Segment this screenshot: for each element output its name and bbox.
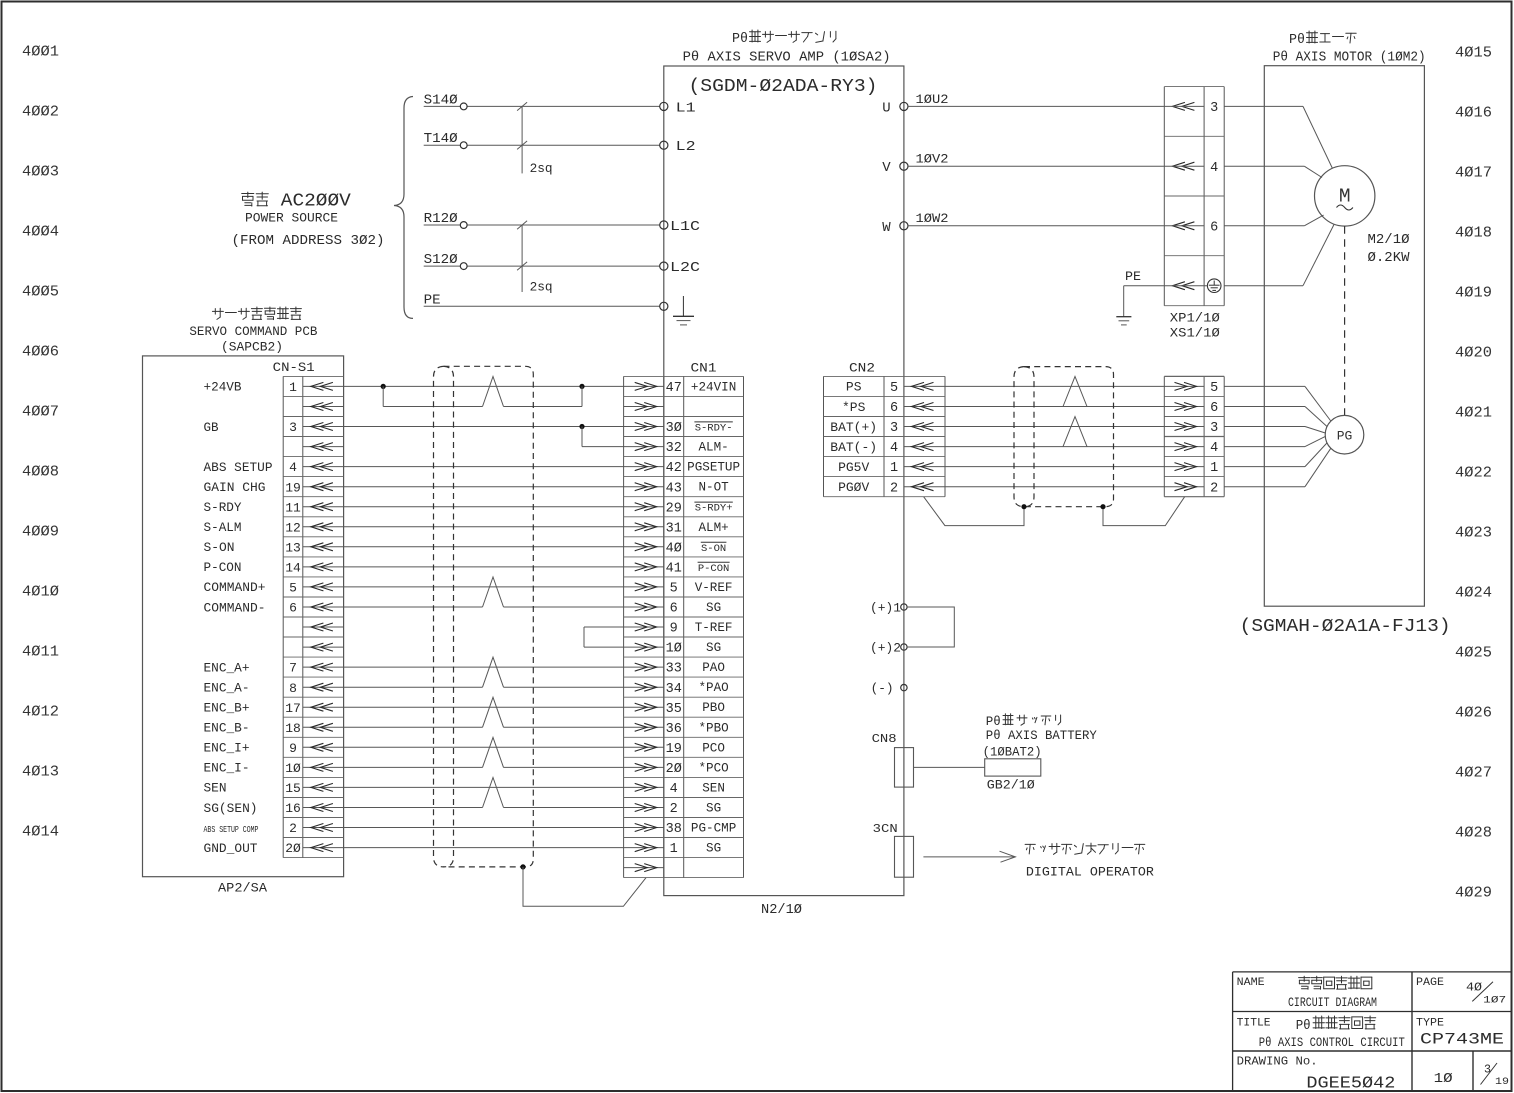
- svg-text:L1: L1: [676, 100, 696, 116]
- svg-text:L2C: L2C: [670, 260, 700, 276]
- svg-text:(FROM ADDRESS 3Ø2): (FROM ADDRESS 3Ø2): [232, 234, 385, 249]
- svg-text:PAGE: PAGE: [1416, 977, 1444, 989]
- terminal (+)1: [901, 604, 907, 610]
- terminal (+)2: [901, 644, 907, 650]
- encoder leads fan-in: [1224, 385, 1305, 387]
- wire row 6: [344, 506, 624, 508]
- svg-text:PGSETUP: PGSETUP: [687, 461, 740, 475]
- svg-text:3: 3: [1210, 421, 1218, 436]
- terminal L1: [660, 102, 668, 110]
- svg-text:PE: PE: [424, 293, 441, 308]
- svg-text:CN2: CN2: [849, 361, 875, 376]
- svg-text:PG: PG: [1337, 428, 1353, 443]
- wire pair rows 20-21: [344, 786, 624, 788]
- svg-text:CN-S1: CN-S1: [273, 360, 315, 375]
- svg-text:4ØØ8: 4ØØ8: [22, 464, 59, 480]
- svg-text:1: 1: [1210, 461, 1218, 476]
- connector CN-S1 grid: [282, 376, 284, 857]
- svg-text:DRAWING No.: DRAWING No.: [1237, 1055, 1318, 1069]
- svg-text:V-REF: V-REF: [695, 581, 733, 595]
- svg-text:(SAPCB2): (SAPCB2): [221, 340, 283, 355]
- svg-text:4Ø19: 4Ø19: [1455, 285, 1492, 301]
- svg-text:3: 3: [289, 420, 297, 435]
- svg-text:4ØØ2: 4ØØ2: [22, 104, 59, 120]
- svg-text:Pθ: Pθ: [732, 31, 748, 47]
- svg-text:AP2/SA: AP2/SA: [218, 881, 267, 896]
- shield drain to CN1 shell: [520, 864, 525, 869]
- svg-text:S-ON: S-ON: [204, 540, 235, 555]
- svg-text:5: 5: [890, 381, 898, 396]
- svg-text:PS: PS: [846, 380, 862, 395]
- svg-text:4ØØ6: 4ØØ6: [22, 344, 59, 360]
- connector CN8: [895, 748, 914, 788]
- label: power source AC200V: [242, 192, 269, 206]
- svg-text:5: 5: [670, 582, 678, 597]
- wire GB to S-RDY-/ALM-: [344, 426, 624, 428]
- CN1 row 6: S-RDY+ pin 29: [624, 506, 664, 508]
- svg-text:PBO: PBO: [702, 701, 725, 715]
- svg-text:POWER SOURCE: POWER SOURCE: [245, 212, 338, 226]
- svg-text:4Ø20: 4Ø20: [1455, 345, 1492, 361]
- svg-text:2Ø: 2Ø: [285, 841, 301, 856]
- terminal V + wire 10V2: [900, 162, 908, 170]
- svg-text:M2/1Ø: M2/1Ø: [1368, 233, 1410, 248]
- svg-text:PE: PE: [1125, 270, 1141, 284]
- wire +24VB pair (rows 0-1): [344, 385, 624, 387]
- svg-text:47: 47: [666, 381, 682, 396]
- svg-text:4Ø12: 4Ø12: [22, 704, 59, 720]
- svg-text:NAME: NAME: [1237, 977, 1265, 989]
- svg-text:19: 19: [1495, 1077, 1509, 1088]
- svg-text:36: 36: [666, 722, 682, 737]
- CN1 row 20: SEN pin 4: [624, 786, 664, 788]
- wire pair rows 14-15: [344, 666, 624, 668]
- svg-text:4Ø24: 4Ø24: [1455, 585, 1492, 601]
- svg-text:1: 1: [289, 380, 297, 395]
- svg-text:4: 4: [1210, 161, 1218, 176]
- CN1 row 11: SG pin 6: [624, 606, 664, 608]
- svg-text:*PBO: *PBO: [698, 721, 728, 735]
- motor-encoder dashed shaft link: [1344, 226, 1346, 415]
- svg-text:4Ø13: 4Ø13: [22, 764, 59, 780]
- motor box 10M2: [1264, 66, 1424, 607]
- svg-text:4: 4: [1210, 441, 1218, 456]
- svg-text:4Ø1Ø: 4Ø1Ø: [22, 584, 59, 600]
- svg-text:5: 5: [289, 581, 297, 596]
- wire COMMAND pair rows 10-11: [344, 586, 624, 588]
- CN1 row 7: ALM+ pin 31: [624, 526, 664, 528]
- CN1 row 2: S-RDY- pin 30: [624, 426, 664, 428]
- svg-text:SG: SG: [706, 601, 721, 615]
- svg-text:DIGITAL OPERATOR: DIGITAL OPERATOR: [1026, 865, 1154, 880]
- svg-text:2Ø: 2Ø: [666, 762, 682, 777]
- CN1 row 10: V-REF pin 5: [624, 586, 664, 588]
- svg-text:Pθ AXIS CONTROL CIRCUIT: Pθ AXIS CONTROL CIRCUIT: [1259, 1036, 1405, 1050]
- svg-text:11: 11: [285, 500, 301, 515]
- terminal PE + ground symbol inside amp: [660, 302, 668, 310]
- svg-text:S-RDY: S-RDY: [204, 500, 242, 515]
- svg-text:4ØØ5: 4ØØ5: [22, 284, 59, 300]
- wire PE to amp ground terminal: [424, 305, 660, 307]
- svg-text:1ØV2: 1ØV2: [916, 152, 949, 167]
- svg-text:4Ø27: 4Ø27: [1455, 765, 1492, 781]
- svg-text:4ØØ3: 4ØØ3: [22, 164, 59, 180]
- title block: [1233, 971, 1512, 973]
- wire CN8 to battery: [914, 766, 985, 768]
- svg-text:(-): (-): [871, 682, 894, 696]
- wire T140 to L2: [424, 144, 660, 146]
- terminal L2C: [660, 262, 668, 270]
- 2sq gauge callout (bottom pair): [521, 225, 523, 292]
- svg-text:32: 32: [666, 441, 682, 456]
- connector XP/XS PG-side block: [1163, 376, 1165, 496]
- svg-text:13: 13: [285, 540, 301, 555]
- svg-text:19: 19: [285, 480, 301, 495]
- CN1 row 18: PCO pin 19: [624, 746, 664, 748]
- svg-text:4: 4: [890, 441, 898, 456]
- CN-S1 row 12: blank pin -: [303, 626, 344, 628]
- label: digital operator: [1025, 843, 1145, 854]
- svg-text:CN1: CN1: [691, 361, 717, 376]
- motor circle M: [1315, 166, 1375, 226]
- svg-text:6: 6: [890, 401, 898, 416]
- svg-text:PCO: PCO: [702, 741, 725, 755]
- svg-text:ALM-: ALM-: [698, 441, 728, 455]
- svg-text:43: 43: [666, 481, 682, 496]
- svg-text:DGEE5Ø42: DGEE5Ø42: [1306, 1074, 1395, 1093]
- svg-text:4Ø16: 4Ø16: [1455, 105, 1492, 121]
- wire row 23: [344, 847, 624, 849]
- svg-text:ENC_A+: ENC_A+: [204, 660, 250, 675]
- svg-text:S-RDY+: S-RDY+: [695, 503, 733, 515]
- shield drains CN2 cable: [1021, 504, 1026, 509]
- CN1 row 19: *PCO pin 20: [624, 766, 664, 768]
- svg-text:CIRCUIT DIAGRAM: CIRCUIT DIAGRAM: [1288, 996, 1377, 1010]
- svg-text:6: 6: [670, 602, 678, 617]
- svg-text:XP1/1Ø: XP1/1Ø: [1170, 310, 1220, 325]
- svg-text:16: 16: [285, 801, 301, 816]
- connector XP1/XS1 power block: [1163, 87, 1165, 306]
- twisted pair crossover row1: [483, 377, 504, 407]
- CN1 row 15: *PAO pin 34: [624, 686, 664, 688]
- wire R120 to L1C: [424, 224, 660, 226]
- wire row 8: [344, 546, 624, 548]
- svg-text:6: 6: [1210, 401, 1218, 416]
- CN1 row 8: S-ON pin 40: [624, 546, 664, 548]
- CN1 row 17: *PBO pin 36: [624, 726, 664, 728]
- svg-text:(1ØBAT2): (1ØBAT2): [983, 746, 1042, 760]
- wire row 4: [344, 466, 624, 468]
- svg-text:ENC_I+: ENC_I+: [204, 741, 250, 756]
- svg-text:COMMAND-: COMMAND-: [204, 600, 266, 615]
- svg-text:2: 2: [1210, 481, 1218, 496]
- svg-text:1: 1: [890, 461, 898, 476]
- svg-text:W: W: [882, 220, 891, 236]
- svg-text:Pθ: Pθ: [1296, 1018, 1311, 1034]
- svg-text:4Ø21: 4Ø21: [1455, 405, 1492, 421]
- svg-text:(SGDM-Ø2ADA-RY3): (SGDM-Ø2ADA-RY3): [689, 76, 878, 97]
- svg-text:TYPE: TYPE: [1416, 1018, 1444, 1030]
- svg-text:SERVO COMMAND PCB: SERVO COMMAND PCB: [189, 324, 317, 339]
- svg-text:33: 33: [666, 662, 682, 677]
- svg-text:L1C: L1C: [670, 219, 700, 235]
- svg-text:AC2ØØV: AC2ØØV: [281, 191, 351, 211]
- svg-text:CP743ME: CP743ME: [1420, 1031, 1504, 1049]
- svg-text:ALM+: ALM+: [698, 521, 728, 535]
- svg-text:4Ø17: 4Ø17: [1455, 165, 1492, 181]
- wire S140 to L1: [424, 105, 660, 107]
- node R120: [460, 222, 467, 229]
- svg-text:PGØV: PGØV: [838, 480, 869, 495]
- svg-text:2: 2: [890, 481, 898, 496]
- cable shield (CN-S1 to CN1) dashed: [444, 366, 534, 867]
- svg-text:SG: SG: [706, 641, 721, 655]
- svg-text:M: M: [1339, 186, 1351, 208]
- node S120: [460, 263, 467, 270]
- svg-text:ENC_B-: ENC_B-: [204, 721, 250, 736]
- svg-text:+24VIN: +24VIN: [691, 380, 736, 394]
- svg-text:6: 6: [1210, 220, 1218, 235]
- svg-text:1ØU2: 1ØU2: [916, 92, 949, 107]
- svg-text:29: 29: [666, 501, 682, 516]
- svg-text:GB2/1Ø: GB2/1Ø: [987, 779, 1036, 793]
- svg-text:1ØW2: 1ØW2: [916, 211, 949, 226]
- wire row 5: [344, 486, 624, 488]
- encoder circle PG: [1325, 415, 1364, 454]
- wire row 9: [344, 566, 624, 568]
- svg-text:3: 3: [890, 421, 898, 436]
- svg-text:R12Ø: R12Ø: [424, 212, 458, 227]
- terminal U + wire 10U2: [900, 102, 908, 110]
- svg-text:ENC_I-: ENC_I-: [204, 761, 250, 776]
- svg-text:9: 9: [289, 741, 297, 756]
- wire pair rows 16-17: [344, 706, 624, 708]
- svg-text:14: 14: [285, 561, 301, 576]
- svg-text:4Ø18: 4Ø18: [1455, 225, 1492, 241]
- CN1 row 5: N-OT pin 43: [624, 486, 664, 488]
- svg-text:7: 7: [289, 661, 297, 676]
- svg-text:PG5V: PG5V: [838, 460, 869, 475]
- svg-text:4Ø26: 4Ø26: [1455, 705, 1492, 721]
- connector CN2 grid: [823, 376, 825, 496]
- wire row 22: [344, 827, 624, 829]
- CN1 row 23: SG pin 1: [624, 847, 664, 849]
- svg-text:4ØØ4: 4ØØ4: [22, 224, 59, 240]
- svg-text:ABS SETUP: ABS SETUP: [204, 460, 273, 475]
- svg-text:2sq: 2sq: [530, 162, 553, 176]
- svg-text:*PCO: *PCO: [698, 761, 728, 775]
- svg-text:4Ø22: 4Ø22: [1455, 465, 1492, 481]
- svg-text:2: 2: [289, 821, 297, 836]
- svg-text:N-OT: N-OT: [698, 481, 729, 495]
- CN-S1 row 1: blank pin -: [303, 406, 344, 408]
- svg-text:1Ø: 1Ø: [285, 761, 301, 776]
- svg-text:XS1/1Ø: XS1/1Ø: [1170, 325, 1220, 340]
- svg-text:CN8: CN8: [872, 732, 897, 746]
- svg-text:18: 18: [285, 721, 301, 736]
- svg-text:Pθ AXIS BATTERY: Pθ AXIS BATTERY: [986, 729, 1097, 743]
- svg-text:19: 19: [666, 742, 682, 757]
- svg-text:SEN: SEN: [204, 781, 227, 796]
- wire/arrow to digital operator: [923, 856, 1015, 858]
- svg-text:V: V: [882, 160, 891, 176]
- power source brace: [394, 97, 413, 319]
- svg-text:2sq: 2sq: [530, 281, 553, 295]
- svg-text:1: 1: [670, 842, 678, 857]
- battery 10BAT2: [985, 759, 1041, 776]
- CN1 row 3: ALM- pin 32: [624, 446, 664, 448]
- CN1 row 0: +24VIN pin 47: [624, 385, 664, 387]
- svg-text:4Ø15: 4Ø15: [1455, 45, 1492, 61]
- svg-text:Pθ: Pθ: [986, 714, 1001, 729]
- svg-text:(SGMAH-Ø2A1A-FJ13): (SGMAH-Ø2A1A-FJ13): [1240, 616, 1451, 637]
- jumper T-REF/SG rows 12-13: [584, 626, 624, 628]
- svg-text:15: 15: [285, 781, 301, 796]
- svg-text:31: 31: [666, 521, 682, 536]
- svg-text:Ø.2KW: Ø.2KW: [1368, 251, 1411, 266]
- CN1 row 16: PBO pin 35: [624, 706, 664, 708]
- wire PE to power block + ground: [1124, 285, 1208, 287]
- svg-text:5: 5: [1210, 381, 1218, 396]
- svg-text:S-ALM: S-ALM: [204, 520, 242, 535]
- motor leads fan-in: [1224, 105, 1303, 107]
- CN-S1 row 13: blank pin -: [303, 646, 344, 648]
- cable shield (CN2 to XP/XS) dashed: [1024, 367, 1114, 507]
- node T140: [460, 142, 467, 149]
- battery jumper loop (+)1 to (+)2: [907, 607, 954, 647]
- svg-text:34: 34: [666, 682, 682, 697]
- svg-text:ABS SETUP COMP: ABS SETUP COMP: [204, 824, 259, 835]
- svg-text:SG: SG: [706, 842, 721, 856]
- svg-text:U: U: [882, 100, 890, 116]
- svg-text:ENC_B+: ENC_B+: [204, 701, 250, 716]
- svg-text:4ØØ1: 4ØØ1: [22, 44, 59, 60]
- svg-text:S14Ø: S14Ø: [424, 93, 458, 108]
- svg-text:1Ø: 1Ø: [1434, 1071, 1453, 1087]
- CN2 cable twisted pairs: [1063, 377, 1087, 407]
- 2sq gauge callout (top pair): [521, 106, 523, 173]
- svg-text:38: 38: [666, 822, 682, 837]
- svg-text:4Ø29: 4Ø29: [1455, 885, 1492, 901]
- svg-text:GAIN CHG: GAIN CHG: [204, 480, 266, 495]
- CN1 row 24: blank pin -: [624, 867, 664, 869]
- wire pair rows 18-19: [344, 746, 624, 748]
- svg-text:TITLE: TITLE: [1237, 1018, 1271, 1030]
- CN1 row 9: P-CON pin 41: [624, 566, 664, 568]
- CN-S1 row 3: blank pin -: [303, 446, 344, 448]
- svg-text:COMMAND+: COMMAND+: [204, 580, 266, 595]
- svg-text:1Ø: 1Ø: [666, 642, 682, 657]
- wire S120 to L2C: [424, 265, 660, 267]
- svg-text:3: 3: [1210, 101, 1218, 116]
- svg-text:(+)2: (+)2: [870, 642, 901, 656]
- svg-text:SEN: SEN: [702, 781, 725, 795]
- svg-text:Pθ AXIS MOTOR (1ØM2): Pθ AXIS MOTOR (1ØM2): [1273, 51, 1426, 66]
- svg-text:6: 6: [289, 601, 297, 616]
- svg-text:T14Ø: T14Ø: [424, 132, 458, 147]
- svg-text:N2/1Ø: N2/1Ø: [761, 903, 802, 918]
- CN1 row 4: PGSETUP pin 42: [624, 466, 664, 468]
- svg-text:3CN: 3CN: [873, 822, 898, 836]
- svg-text:4Ø14: 4Ø14: [22, 824, 59, 840]
- svg-text:17: 17: [285, 701, 301, 716]
- svg-text:GND_OUT: GND_OUT: [204, 841, 258, 856]
- svg-text:GB: GB: [204, 420, 219, 435]
- svg-text:41: 41: [666, 562, 682, 577]
- svg-text:4: 4: [289, 460, 297, 475]
- svg-text:12: 12: [285, 520, 301, 535]
- svg-text:+24VB: +24VB: [204, 380, 242, 395]
- svg-text:4Ø: 4Ø: [666, 541, 682, 556]
- svg-text:4Ø: 4Ø: [1466, 981, 1482, 995]
- terminal L2: [660, 141, 668, 149]
- svg-text:42: 42: [666, 461, 682, 476]
- node S140: [460, 103, 467, 110]
- svg-text:3: 3: [1484, 1063, 1491, 1077]
- terminal L1C: [660, 221, 668, 229]
- svg-text:4Ø28: 4Ø28: [1455, 825, 1492, 841]
- svg-text:35: 35: [666, 702, 682, 717]
- svg-text:9: 9: [670, 622, 678, 637]
- svg-text:BAT(+): BAT(+): [830, 420, 877, 435]
- svg-text:BAT(-): BAT(-): [830, 440, 877, 455]
- svg-text:*PAO: *PAO: [698, 681, 728, 695]
- svg-text:P-CON: P-CON: [204, 560, 242, 575]
- servo command PCB box SAPCB2: [143, 356, 344, 877]
- svg-text:4ØØ7: 4ØØ7: [22, 404, 59, 420]
- connector 3CN: [895, 836, 914, 877]
- svg-text:4Ø25: 4Ø25: [1455, 645, 1492, 661]
- svg-text:PG-CMP: PG-CMP: [691, 822, 736, 836]
- svg-text:Pθ: Pθ: [1289, 32, 1305, 48]
- svg-text:*PS: *PS: [842, 400, 866, 415]
- CN1 row 21: SG pin 2: [624, 807, 664, 809]
- svg-text:SG(SEN): SG(SEN): [204, 801, 258, 816]
- terminal W + wire 10W2: [900, 222, 908, 230]
- svg-text:4Ø11: 4Ø11: [22, 644, 59, 660]
- terminal (-): [901, 684, 907, 690]
- CN1 row 1: blank pin -: [624, 406, 664, 408]
- svg-text:4: 4: [670, 782, 678, 797]
- svg-text:4Ø23: 4Ø23: [1455, 525, 1492, 541]
- svg-text:8: 8: [289, 681, 297, 696]
- connector CN1 grid: [623, 376, 625, 877]
- label: servo command PCB (Japanese): [212, 307, 301, 320]
- CN1 row 22: PG-CMP pin 38: [624, 827, 664, 829]
- power block PE pin (earth symbol): [1172, 282, 1194, 290]
- svg-text:S12Ø: S12Ø: [424, 253, 458, 268]
- op-amp: none; servo amplifier box 10SA2: [664, 66, 904, 896]
- svg-text:Pθ AXIS SERVO AMP (1ØSA2): Pθ AXIS SERVO AMP (1ØSA2): [683, 51, 891, 66]
- CN1 row 12: T-REF pin 9: [624, 626, 664, 628]
- svg-text:P-CON: P-CON: [698, 563, 730, 575]
- svg-text:S-RDY-: S-RDY-: [695, 423, 733, 435]
- svg-text:SG: SG: [706, 802, 721, 816]
- svg-text:3Ø: 3Ø: [666, 421, 682, 436]
- svg-text:ENC_A-: ENC_A-: [204, 681, 250, 696]
- CN1 row 13: SG pin 10: [624, 646, 664, 648]
- svg-text:4ØØ9: 4ØØ9: [22, 524, 59, 540]
- svg-text:2: 2: [670, 802, 678, 817]
- wire row 7: [344, 526, 624, 528]
- CN1 row 14: PAO pin 33: [624, 666, 664, 668]
- svg-text:T-REF: T-REF: [695, 621, 733, 635]
- svg-text:(+)1: (+)1: [870, 602, 901, 616]
- svg-text:1Ø7: 1Ø7: [1483, 994, 1506, 1006]
- svg-text:L2: L2: [676, 139, 696, 155]
- svg-text:PAO: PAO: [702, 661, 725, 675]
- svg-text:S-ON: S-ON: [701, 543, 726, 555]
